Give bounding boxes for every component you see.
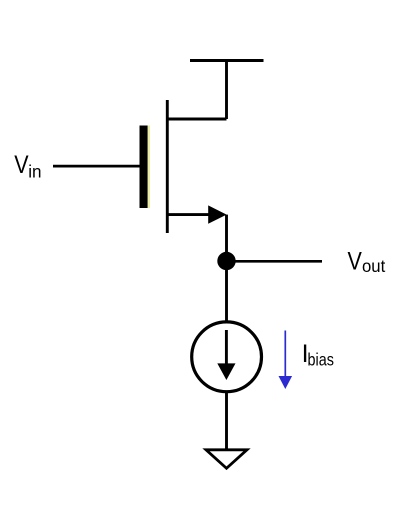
wire source to node — [225, 215, 228, 261]
wire node to current source — [225, 261, 228, 321]
svg-text:out: out — [362, 255, 385, 276]
wire node to Vout — [227, 260, 323, 263]
ground — [206, 450, 247, 469]
node Vout junction dot — [217, 252, 235, 270]
current source I1 — [192, 322, 262, 392]
source stub with arrow — [167, 213, 211, 216]
gate bar — [140, 126, 148, 209]
gate bar yellow edge — [148, 126, 150, 209]
supply rail VDD — [190, 59, 264, 62]
channel line — [166, 100, 169, 233]
svg-text:V: V — [348, 247, 363, 275]
drain stub — [167, 118, 226, 121]
svg-text:in: in — [28, 161, 41, 182]
svg-text:V: V — [14, 151, 29, 179]
wire rail to drain — [225, 61, 228, 120]
svg-text:bias: bias — [308, 350, 334, 370]
blue annotation arrow Ibias — [279, 331, 293, 390]
transistor M1 — [140, 100, 227, 233]
wire Vin to gate — [53, 165, 140, 168]
wire current source to ground — [225, 392, 228, 450]
